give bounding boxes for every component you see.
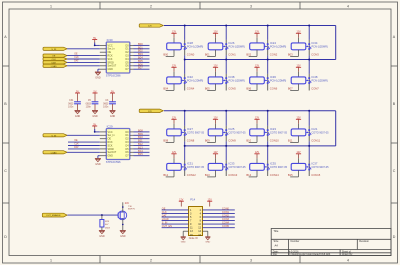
- svg-text:STP16C596: STP16C596: [106, 73, 121, 77]
- svg-text:CON11: CON11: [311, 138, 320, 142]
- svg-text:File:: File:: [273, 253, 278, 256]
- svg-text:100n: 100n: [103, 107, 109, 109]
- svg-text:B15: B15: [138, 152, 143, 156]
- svg-text:0603: 0603: [103, 103, 109, 105]
- svg-text:B07: B07: [288, 86, 293, 90]
- svg-text:S_IN: S_IN: [51, 135, 56, 137]
- svg-text:S_IN: S_IN: [162, 222, 168, 225]
- svg-text:3: 3: [250, 4, 252, 8]
- svg-text:COTO 9007-05: COTO 9007-05: [312, 131, 330, 134]
- svg-text:B14: B14: [138, 149, 143, 153]
- svg-text:0603: 0603: [105, 227, 111, 229]
- svg-text:IC23: IC23: [270, 127, 276, 131]
- svg-text:COTO 9007-05: COTO 9007-05: [187, 131, 205, 134]
- svg-text:1: 1: [50, 4, 52, 8]
- svg-text:Revision: Revision: [359, 240, 369, 243]
- svg-text:IC26: IC26: [229, 41, 235, 45]
- svg-text:COTO 9007-05: COTO 9007-05: [270, 131, 288, 134]
- svg-text:B08: B08: [163, 138, 168, 142]
- svg-text:B04: B04: [138, 56, 143, 60]
- svg-text:C:\Design\Logic board Relay8 8: C:\Design\Logic board Relay8 8x8.Ddb: [289, 253, 331, 256]
- svg-text:Node IO: Node IO: [189, 237, 198, 240]
- svg-text:COTO 9007-05: COTO 9007-05: [229, 166, 247, 169]
- svg-text:OE: OE: [162, 207, 166, 210]
- svg-text:COTO 9007-05: COTO 9007-05: [187, 166, 205, 169]
- svg-text:B06: B06: [246, 86, 251, 90]
- svg-text:GND: GND: [110, 115, 116, 118]
- svg-text:D: D: [393, 235, 396, 239]
- svg-text:OE: OE: [74, 140, 78, 142]
- svg-text:PCN-1(2DMR): PCN-1(2DMR): [229, 45, 245, 48]
- svg-text:IC48: IC48: [312, 75, 318, 79]
- svg-text:B04: B04: [163, 86, 168, 90]
- svg-text:IC30: IC30: [107, 38, 113, 42]
- svg-text:IC35: IC35: [270, 161, 276, 165]
- svg-text:B10: B10: [138, 135, 143, 139]
- svg-text:B05: B05: [138, 59, 143, 63]
- svg-text:2: 2: [150, 4, 152, 8]
- svg-text:B13: B13: [138, 145, 143, 149]
- svg-text:24V: 24V: [125, 203, 130, 205]
- svg-text:100n: 100n: [68, 107, 74, 109]
- svg-text:CON14: CON14: [270, 173, 279, 177]
- svg-text:OUT_EN: OUT_EN: [162, 225, 172, 228]
- svg-text:P14: P14: [190, 197, 195, 201]
- svg-text:COTO 9007-05: COTO 9007-05: [229, 131, 247, 134]
- svg-text:GND: GND: [108, 68, 114, 71]
- svg-text:4: 4: [347, 258, 349, 262]
- svg-text:CON12: CON12: [187, 173, 196, 177]
- svg-text:B09: B09: [205, 138, 210, 142]
- svg-text:B08: B08: [138, 128, 143, 132]
- svg-text:IC37: IC37: [312, 161, 318, 165]
- svg-text:B13: B13: [205, 173, 210, 177]
- svg-text:B12: B12: [138, 142, 143, 146]
- svg-text:B06: B06: [138, 62, 143, 66]
- svg-text:B15: B15: [288, 173, 293, 177]
- svg-text:PCN-1(2DMR): PCN-1(2DMR): [270, 45, 286, 48]
- svg-text:LOAD: LOAD: [162, 218, 169, 221]
- svg-text:CON3: CON3: [311, 52, 319, 56]
- svg-text:CLK: CLK: [74, 144, 79, 146]
- svg-text:B00: B00: [163, 52, 168, 56]
- svg-text:B03: B03: [138, 52, 143, 56]
- svg-text:IC36: IC36: [270, 75, 276, 79]
- svg-text:PCN-1(2DMR): PCN-1(2DMR): [229, 79, 245, 82]
- svg-text:GND: GND: [75, 115, 81, 118]
- svg-text:IC25: IC25: [229, 127, 235, 131]
- svg-text:CON2: CON2: [270, 52, 278, 56]
- svg-text:C: C: [393, 169, 396, 173]
- svg-text:LOAD: LOAD: [51, 151, 57, 154]
- svg-text:CLK: CLK: [74, 57, 79, 59]
- svg-text:PCN-1(2DMR): PCN-1(2DMR): [187, 45, 203, 48]
- svg-text:PCN-1(2DMR): PCN-1(2DMR): [312, 79, 328, 82]
- svg-text:IC32: IC32: [187, 75, 193, 79]
- svg-text:OE: OE: [74, 54, 78, 56]
- svg-text:B11: B11: [138, 139, 143, 143]
- svg-text:A4: A4: [275, 244, 279, 248]
- svg-text:IC34: IC34: [312, 41, 318, 45]
- svg-text:GND: GND: [205, 242, 210, 244]
- svg-text:B01: B01: [205, 52, 210, 56]
- svg-text:D: D: [4, 235, 7, 239]
- svg-text:CON1: CON1: [228, 52, 236, 56]
- svg-text:GND: GND: [95, 76, 101, 79]
- svg-text:CON3: CON3: [222, 218, 230, 221]
- svg-text:COTO 9007-05: COTO 9007-05: [312, 166, 330, 169]
- svg-text:CON5: CON5: [228, 86, 236, 90]
- svg-text:DAT: DAT: [74, 146, 79, 149]
- svg-text:IC24: IC24: [270, 41, 276, 45]
- svg-text:CON7: CON7: [311, 86, 319, 90]
- svg-text:OUT_ENABLE: OUT_ENABLE: [46, 214, 61, 217]
- svg-text:IC27: IC27: [187, 127, 193, 131]
- svg-text:IC21: IC21: [312, 127, 318, 131]
- svg-text:STP16C596: STP16C596: [106, 160, 121, 164]
- svg-text:Drawn By:: Drawn By:: [342, 253, 353, 256]
- svg-text:B14: B14: [246, 173, 251, 177]
- svg-text:PCN-1(2DMR): PCN-1(2DMR): [270, 79, 286, 82]
- svg-text:2: 2: [150, 258, 152, 262]
- svg-text:GND: GND: [181, 242, 186, 244]
- svg-text:Size: Size: [274, 240, 279, 243]
- svg-text:IC28: IC28: [187, 41, 193, 45]
- svg-text:CON8: CON8: [187, 138, 195, 142]
- svg-text:0603: 0603: [68, 103, 74, 105]
- svg-text:B01: B01: [138, 45, 143, 49]
- svg-text:3: 3: [250, 258, 252, 262]
- svg-text:B02: B02: [138, 49, 143, 53]
- svg-text:BSP75: BSP75: [128, 209, 136, 211]
- svg-text:GND: GND: [99, 235, 105, 238]
- svg-text:12V: 12V: [148, 26, 152, 28]
- svg-text:GND: GND: [92, 115, 98, 118]
- svg-text:LOAD: LOAD: [51, 65, 57, 68]
- svg-text:DAT: DAT: [162, 215, 167, 218]
- svg-text:S_IN: S_IN: [51, 49, 56, 51]
- svg-text:PCN-1(2DMR): PCN-1(2DMR): [187, 79, 203, 82]
- svg-text:B12: B12: [163, 173, 168, 177]
- svg-text:C: C: [4, 169, 7, 173]
- svg-text:B03: B03: [288, 52, 293, 56]
- svg-text:CON10: CON10: [270, 138, 279, 142]
- svg-text:GND: GND: [95, 163, 101, 166]
- svg-text:100n: 100n: [86, 107, 92, 109]
- svg-text:CON4: CON4: [222, 222, 230, 225]
- svg-text:B11: B11: [288, 138, 293, 142]
- svg-text:CLK: CLK: [162, 211, 167, 214]
- svg-text:CON6: CON6: [270, 86, 278, 90]
- svg-text:CON1: CON1: [222, 211, 230, 214]
- svg-text:CON0: CON0: [187, 52, 195, 56]
- svg-text:0603: 0603: [86, 103, 92, 105]
- svg-text:B09: B09: [138, 132, 143, 136]
- svg-text:IC38: IC38: [229, 75, 235, 79]
- svg-text:CON0: CON0: [222, 207, 230, 210]
- svg-text:B07: B07: [138, 66, 143, 70]
- svg-text:CON15: CON15: [311, 173, 320, 177]
- svg-text:COTO 9007-05: COTO 9007-05: [270, 166, 288, 169]
- svg-text:IC29: IC29: [107, 124, 113, 128]
- svg-text:CON13: CON13: [228, 173, 237, 177]
- svg-text:B00: B00: [138, 42, 143, 46]
- svg-text:CON9: CON9: [228, 138, 236, 142]
- svg-text:PCN-1(2DMR): PCN-1(2DMR): [312, 45, 328, 48]
- svg-text:DAT: DAT: [74, 60, 79, 63]
- svg-text:GND: GND: [108, 155, 114, 158]
- svg-text:GND: GND: [120, 235, 126, 238]
- svg-text:CON5: CON5: [222, 225, 230, 228]
- svg-text:B05: B05: [205, 86, 210, 90]
- svg-text:IC31: IC31: [187, 161, 193, 165]
- svg-text:CON4: CON4: [187, 86, 195, 90]
- svg-text:12V: 12V: [148, 111, 152, 113]
- svg-text:IC33: IC33: [229, 161, 235, 165]
- svg-text:1: 1: [50, 258, 52, 262]
- svg-text:B10: B10: [246, 138, 251, 142]
- svg-text:C31: C31: [69, 100, 74, 102]
- svg-text:Title: Title: [273, 229, 278, 233]
- svg-text:Number: Number: [291, 240, 300, 243]
- svg-text:CON2: CON2: [222, 215, 230, 218]
- svg-text:4: 4: [347, 4, 349, 8]
- svg-text:B02: B02: [246, 52, 251, 56]
